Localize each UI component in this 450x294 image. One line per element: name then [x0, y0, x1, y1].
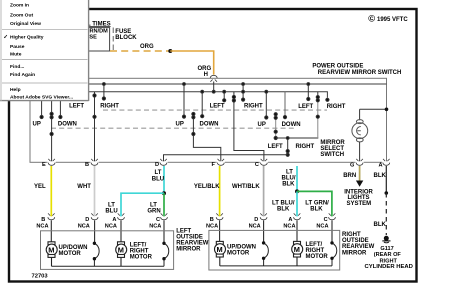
- ground G117: [382, 236, 390, 243]
- svg-text:ORG: ORG: [198, 66, 212, 72]
- connector A left: [118, 217, 125, 220]
- context menu overlay: [0, 0, 89, 101]
- svg-text:CYLINDER HEAD: CYLINDER HEAD: [365, 264, 413, 270]
- svg-text:BLU: BLU: [152, 176, 164, 182]
- breaker contact arc C left: [164, 243, 169, 266]
- svg-text:Original View: Original View: [10, 21, 41, 27]
- H feed drop to bus2: [213, 82, 215, 92]
- svg-text:BRN: BRN: [343, 173, 356, 179]
- svg-text:WHT: WHT: [77, 184, 91, 190]
- contact col x285: [284, 92, 286, 117]
- node split LT BLU: [162, 191, 166, 195]
- svg-text:✓: ✓: [3, 34, 8, 40]
- svg-text:MIRROR: MIRROR: [342, 250, 367, 256]
- svg-text:B: B: [85, 162, 89, 168]
- connector E: [48, 161, 56, 163]
- svg-text:ORG: ORG: [140, 44, 154, 50]
- svg-text:UP: UP: [176, 121, 184, 127]
- svg-text:M: M: [118, 246, 124, 255]
- svg-text:A: A: [288, 217, 292, 223]
- contact col x193.4 output F: [192, 112, 195, 115]
- contact col x41.6: [41, 84, 43, 117]
- breaker contact arc D right: [264, 243, 269, 266]
- wire BRN from G with arrow: [359, 166, 361, 181]
- svg-text:G: G: [350, 163, 354, 169]
- svg-text:Find...: Find...: [10, 64, 25, 70]
- svg-text:Pause: Pause: [10, 44, 25, 50]
- switch contacts: group1: [40, 83, 106, 163]
- fuse block dashed boundary: [113, 28, 137, 51]
- svg-text:YEL/BLK: YEL/BLK: [194, 184, 220, 190]
- svg-text:MOTOR: MOTOR: [227, 251, 250, 257]
- svg-text:REARVIEW MIRROR SWITCH: REARVIEW MIRROR SWITCH: [318, 70, 402, 76]
- svg-text:C: C: [324, 217, 328, 223]
- connector B left: [48, 217, 55, 220]
- motor M4 left/right right box: [292, 241, 303, 266]
- connector F: [217, 161, 225, 163]
- contact col x94.5 output B: [94, 92, 96, 163]
- contact col x103.9: [103, 84, 105, 99]
- svg-text:©: ©: [368, 13, 375, 24]
- contact col x243.1: [242, 84, 244, 100]
- svg-text:BLK: BLK: [310, 207, 323, 213]
- svg-text:RIGHT: RIGHT: [244, 104, 263, 110]
- bus bar 2: [30, 92, 327, 98]
- svg-text:M: M: [294, 245, 300, 254]
- motor M1 up/down left: [46, 242, 57, 266]
- switch contacts: group2: [182, 82, 264, 163]
- wire YEL/BLK from F: [219, 166, 221, 216]
- svg-text:NCA: NCA: [149, 224, 161, 230]
- svg-text:BLK: BLK: [277, 207, 290, 213]
- breaker contact arc C right: [332, 243, 337, 266]
- contact col x60.4: [59, 92, 61, 117]
- wire ORG dashed from fuse block: [110, 50, 170, 52]
- svg-text:LEFT: LEFT: [69, 104, 84, 110]
- wire LT GRN to C: [163, 193, 165, 216]
- wire WHT from B: [94, 166, 96, 216]
- svg-text:REARVIEW: REARVIEW: [176, 241, 209, 247]
- motor M3 up/down right: [215, 241, 226, 266]
- menu separator: [2, 29, 88, 31]
- contact col x233.9 output C: [233, 92, 235, 97]
- connector D left: [91, 217, 98, 220]
- wire LT BLU branch to A: [121, 193, 164, 216]
- svg-text:LEFT: LEFT: [210, 104, 225, 110]
- svg-text:UP/DOWN: UP/DOWN: [227, 244, 256, 250]
- svg-text:NCA: NCA: [283, 224, 295, 230]
- svg-text:DOWN: DOWN: [58, 121, 77, 127]
- menu separator: [2, 82, 88, 84]
- svg-text:About Adobe SVG Viewer...: About Adobe SVG Viewer...: [10, 95, 74, 101]
- contact col x308.3: [307, 84, 309, 99]
- svg-text:UP: UP: [33, 121, 41, 127]
- svg-text:LEFT: LEFT: [298, 104, 313, 110]
- svg-text:YEL: YEL: [34, 184, 46, 190]
- hot at all times label: [56, 21, 111, 27]
- svg-text:LEFT: LEFT: [176, 228, 191, 234]
- svg-text:D: D: [254, 217, 258, 223]
- contact col x275.7 wiper: [274, 113, 277, 116]
- contact col x224.2: [223, 92, 225, 101]
- svg-text:RIGHT: RIGHT: [296, 144, 315, 150]
- svg-text:M: M: [217, 245, 223, 254]
- svg-text:MIRROR: MIRROR: [176, 247, 201, 253]
- connector H on switch box top: [210, 77, 218, 79]
- contact col x202.2: [201, 92, 203, 117]
- left box common bus: [52, 265, 165, 267]
- svg-text:D: D: [155, 162, 159, 168]
- wire WHT/BLK from C: [263, 166, 265, 216]
- svg-text:BLOCK: BLOCK: [115, 35, 137, 41]
- svg-text:1995 VFTC: 1995 VFTC: [377, 17, 408, 23]
- menu separator: [2, 59, 88, 61]
- svg-text:RIGHT: RIGHT: [342, 232, 361, 238]
- svg-text:REARVIEW: REARVIEW: [342, 244, 375, 250]
- left outside rearview mirror box: [41, 231, 174, 270]
- contact col x266.3: [265, 92, 267, 118]
- breaker contact arc D left: [94, 243, 99, 266]
- svg-text:RIGHT: RIGHT: [327, 104, 346, 110]
- svg-text:Mute: Mute: [10, 51, 22, 57]
- svg-text:NCA: NCA: [206, 224, 218, 230]
- svg-text:BLK: BLK: [282, 182, 295, 188]
- connector D right: [260, 217, 267, 220]
- wire LT GRN/BLK to C: [297, 191, 332, 216]
- svg-text:E: E: [42, 162, 46, 168]
- connector A: [382, 161, 390, 163]
- svg-text:LT: LT: [155, 170, 162, 176]
- connector C left: [161, 217, 168, 220]
- svg-text:M: M: [48, 246, 54, 255]
- svg-text:D: D: [85, 217, 89, 223]
- wire BLK dashed to ground: [385, 193, 387, 235]
- svg-text:RIGHT: RIGHT: [100, 104, 119, 110]
- svg-text:OUTSIDE: OUTSIDE: [176, 235, 203, 241]
- contact col x51.6 output E: [51, 92, 53, 114]
- connector C right: [329, 217, 336, 220]
- mirror select switch symbol: [352, 109, 387, 162]
- svg-text:DOWN: DOWN: [200, 121, 219, 127]
- svg-text:Zoom Out: Zoom Out: [10, 13, 33, 19]
- svg-text:GRN: GRN: [147, 208, 160, 214]
- wire YEL from E: [50, 166, 52, 216]
- connector C: [260, 161, 268, 163]
- contact col x327.4 from bus2 end: [326, 98, 329, 101]
- svg-text:MOTOR: MOTOR: [130, 255, 153, 261]
- svg-text:UP: UP: [258, 122, 266, 128]
- svg-text:Help: Help: [10, 87, 21, 93]
- right box common bus: [220, 265, 332, 267]
- svg-text:H: H: [204, 72, 208, 78]
- svg-text:NCA: NCA: [36, 224, 48, 230]
- right outside rearview mirror box: [209, 230, 340, 270]
- wire ORG solid to switch: [170, 51, 213, 75]
- svg-text:NCA: NCA: [105, 224, 117, 230]
- svg-text:BLK: BLK: [374, 173, 387, 179]
- svg-text:DOWN: DOWN: [282, 122, 301, 128]
- wires connector to left mirror box: [51, 220, 332, 242]
- mechanical link dashed line 1: [103, 109, 327, 111]
- svg-text:LEFT: LEFT: [268, 144, 283, 150]
- svg-text:MOTOR: MOTOR: [59, 251, 82, 257]
- motor M2 left/right left box: [116, 242, 127, 266]
- wire select to right edge: [360, 108, 387, 110]
- op: power mirror switch box outline: [30, 78, 387, 162]
- switch contacts: group3 mirror select: [164, 83, 330, 163]
- svg-text:A: A: [112, 217, 116, 223]
- svg-text:B: B: [41, 217, 45, 223]
- svg-text:SYSTEM: SYSTEM: [347, 201, 372, 207]
- svg-text:BLU: BLU: [105, 208, 117, 214]
- svg-text:NCA: NCA: [316, 224, 328, 230]
- select crossbar: [276, 137, 319, 139]
- svg-text:UP/DOWN: UP/DOWN: [59, 245, 88, 251]
- svg-text:MOTOR: MOTOR: [306, 254, 329, 260]
- svg-text:C: C: [156, 217, 160, 223]
- wire D feed: [164, 155, 288, 163]
- connector B right: [216, 217, 223, 220]
- svg-text:Zoom In: Zoom In: [10, 2, 29, 8]
- svg-text:A: A: [379, 163, 383, 169]
- contact col x317.8: [317, 92, 319, 97]
- contact col x287.7 to D feed: [287, 138, 289, 151]
- connector B: [90, 161, 98, 163]
- svg-text:BLK: BLK: [374, 222, 387, 228]
- svg-text:SWITCH: SWITCH: [320, 152, 344, 158]
- svg-text:B: B: [210, 217, 214, 223]
- bus bar 1: [30, 83, 387, 85]
- mechanical link dashed line 2: [51, 127, 296, 129]
- splice on BLK: [385, 191, 389, 195]
- node on right edge: [385, 108, 389, 112]
- svg-text:WHT/BLK: WHT/BLK: [232, 184, 260, 190]
- node split LT BLU/BLK: [295, 189, 299, 193]
- wire LT BLU/BLK to A: [296, 191, 298, 216]
- svg-text:NCA: NCA: [249, 224, 261, 230]
- svg-text:G117: G117: [380, 246, 393, 252]
- fuse TURN/DM box: [62, 28, 110, 51]
- svg-text:NCA: NCA: [78, 224, 90, 230]
- svg-text:(REAR OF: (REAR OF: [374, 252, 402, 258]
- svg-text:Find Again: Find Again: [10, 72, 35, 78]
- svg-text:C: C: [255, 162, 259, 168]
- svg-text:72703: 72703: [32, 274, 49, 280]
- svg-text:POWER OUTSIDE: POWER OUTSIDE: [312, 64, 363, 70]
- svg-text:OUTSIDE: OUTSIDE: [342, 238, 369, 244]
- contact col x184: [183, 84, 185, 117]
- wire LT BLU/BLK from F2: [296, 166, 298, 191]
- wire LT BLU from D: [163, 166, 165, 193]
- wire BLK from A: [385, 166, 387, 193]
- connector G: [356, 161, 364, 163]
- svg-text:F: F: [212, 162, 216, 168]
- connector A right: [294, 217, 301, 220]
- svg-text:Higher Quality: Higher Quality: [10, 34, 44, 40]
- connector D: [159, 161, 167, 163]
- splice node on ORG wire: [168, 49, 172, 53]
